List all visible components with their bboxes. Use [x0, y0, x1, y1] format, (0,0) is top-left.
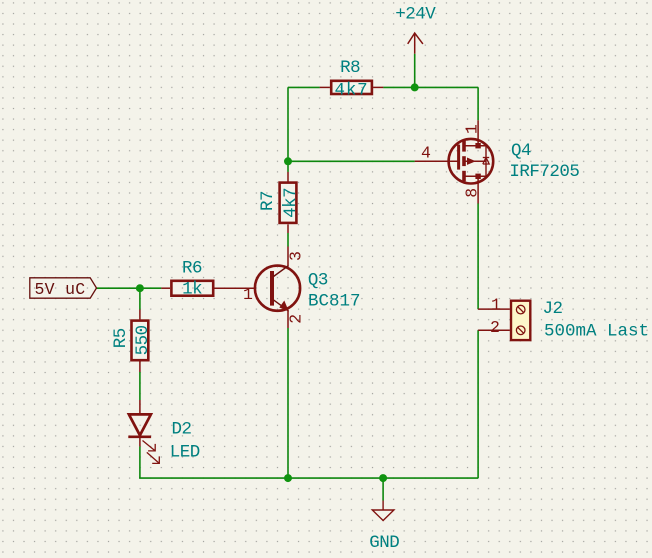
R5 pin 2 stub	[139, 361, 141, 372]
mosfet Q4	[415, 120, 580, 203]
mid tap with arrow	[464, 160, 486, 162]
resistor R8	[320, 58, 384, 100]
collector diagonal	[274, 266, 289, 277]
emitter arrow	[279, 301, 289, 312]
R7 body	[280, 183, 297, 223]
junction dot E	[379, 474, 387, 482]
svg-text:R6: R6	[182, 259, 202, 279]
svg-text:GND: GND	[369, 533, 399, 553]
power symbol +24V	[408, 33, 423, 54]
svg-text:4k7: 4k7	[281, 188, 301, 218]
wire top left of R8	[288, 86, 320, 88]
transistor Q3	[215, 247, 361, 329]
svg-text:3: 3	[287, 251, 306, 261]
channel segment top	[462, 141, 466, 152]
R7 value label 4k7	[281, 188, 301, 218]
cathode bar	[128, 435, 151, 438]
junction dot A	[411, 83, 419, 91]
R7 reference label	[258, 191, 278, 211]
gate bar	[457, 145, 460, 170]
pin 2 line	[478, 329, 510, 331]
svg-text:4k7: 4k7	[335, 80, 369, 100]
wire 5VuC to R6	[97, 287, 162, 289]
wire D2 to bottom	[139, 446, 141, 478]
top tap	[464, 145, 486, 147]
svg-text:D2: D2	[172, 420, 192, 440]
wire left column down to R7	[287, 87, 289, 171]
screw 1	[516, 305, 525, 314]
pin number 1	[462, 124, 481, 134]
pin number 3	[287, 251, 306, 261]
wire +24V drop	[414, 54, 416, 88]
emitter pin	[287, 311, 289, 328]
body diode	[483, 158, 489, 165]
emission arrow 1	[143, 441, 156, 451]
channel segment bottom	[462, 171, 466, 182]
svg-text:BC817: BC817	[308, 292, 361, 312]
svg-text:4: 4	[421, 144, 431, 163]
base bar	[270, 271, 274, 306]
R6 body	[171, 281, 213, 296]
R8 pin 1 stub	[320, 86, 330, 88]
wire Q4 top	[477, 87, 479, 120]
gnd pin	[382, 501, 384, 510]
svg-text:Q4: Q4	[511, 141, 531, 161]
R7 pin 2 stub	[287, 225, 289, 234]
svg-text:J2: J2	[543, 299, 563, 319]
junction dot C	[136, 284, 144, 292]
gnd triangle	[372, 510, 394, 521]
svg-text:Q3: Q3	[308, 271, 328, 291]
svg-text:+24V: +24V	[395, 5, 436, 25]
screw 2	[516, 326, 525, 335]
body	[511, 301, 530, 340]
ground	[369, 501, 399, 554]
emitter diagonal	[274, 300, 289, 311]
bottom tap	[464, 175, 486, 177]
svg-text:550: 550	[133, 325, 153, 355]
body diode vertical	[485, 146, 487, 177]
svg-text:1k: 1k	[182, 279, 202, 299]
input label 5V uC	[30, 278, 97, 299]
svg-text:1: 1	[243, 285, 253, 304]
svg-text:R5: R5	[111, 328, 131, 348]
wire R5 to D2	[139, 372, 141, 400]
top pin	[477, 120, 479, 143]
bottom pin	[477, 179, 479, 204]
resistor R7	[258, 172, 301, 233]
wire Q3 emitter down	[287, 328, 289, 478]
wire junction to R5	[139, 288, 141, 309]
R5 pin 1 stub	[139, 310, 141, 320]
junction dot D	[284, 474, 292, 482]
svg-text:R7: R7	[258, 191, 278, 211]
svg-text:500mA Last: 500mA Last	[544, 321, 649, 341]
base pin	[215, 287, 254, 289]
wire gate Q4	[288, 160, 415, 162]
R6 pin 1 stub	[161, 287, 170, 289]
wire GND stub	[382, 478, 384, 500]
pin 1 line	[478, 308, 510, 310]
R7 pin 1 stub	[287, 172, 289, 182]
svg-text:2: 2	[490, 318, 500, 337]
wire R7 to Q3 collector	[287, 233, 289, 247]
svg-text:IRF7205: IRF7205	[509, 162, 579, 182]
svg-text:2: 2	[287, 314, 306, 324]
R5 value label 550	[133, 325, 153, 355]
R8 body	[331, 81, 372, 94]
triangle	[129, 414, 151, 435]
wire bottom rail	[139, 477, 478, 479]
svg-text:LED: LED	[170, 442, 200, 462]
pin number 2	[287, 314, 306, 324]
collector pin	[287, 247, 289, 266]
resistor R6	[161, 259, 254, 300]
wire top right of R8	[383, 86, 478, 88]
connector J2	[478, 295, 649, 341]
svg-text:R8: R8	[340, 58, 360, 78]
cathode pin	[139, 437, 141, 447]
svg-text:1: 1	[491, 295, 501, 314]
R8 pin 2 stub	[373, 86, 383, 88]
led D2	[128, 400, 200, 463]
svg-text:1: 1	[462, 124, 481, 134]
gate pin	[415, 160, 459, 162]
junction dot B	[284, 157, 292, 165]
wire Q4 drain to J2 pin1	[477, 204, 479, 310]
anode pin	[139, 400, 141, 414]
channel segment mid	[462, 156, 466, 166]
svg-text:5V uC: 5V uC	[34, 280, 85, 299]
pin number 8	[462, 188, 481, 198]
svg-text:8: 8	[462, 188, 481, 198]
R5 body	[132, 321, 149, 361]
emission arrow 2	[147, 452, 160, 463]
wire J2 pin2 to bottom rail	[477, 330, 479, 478]
node 5V uC outline	[30, 278, 97, 298]
R6 pin 2 stub	[215, 287, 254, 289]
resistor R5	[111, 310, 153, 373]
R5 reference label	[111, 328, 131, 348]
